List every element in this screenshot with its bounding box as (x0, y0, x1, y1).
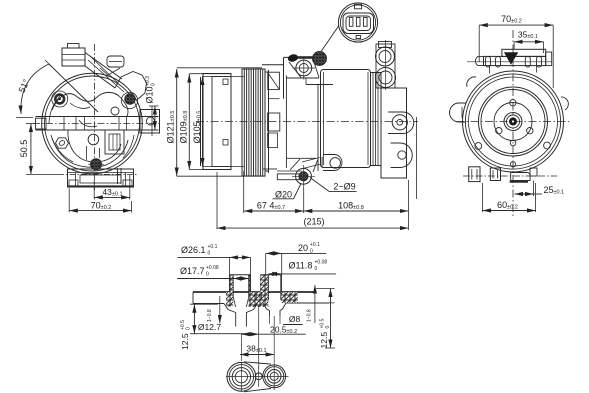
dim line (215) (216, 172, 218, 229)
right boss (260, 275, 262, 292)
svg-text:2−Ø9: 2−Ø9 (333, 182, 355, 192)
dimension 43+-0.1 (93, 180, 95, 200)
dim line O105 (202, 77, 204, 167)
top lug bolt circle (296, 60, 312, 76)
clutch plate recess (212, 77, 231, 167)
svg-text:70±0.2: 70±0.2 (501, 14, 522, 25)
horizontal centerline front view (33, 123, 161, 125)
top-left mount block (62, 48, 85, 66)
right-mid cylinder block rects (105, 130, 124, 154)
middle small bore (255, 292, 257, 300)
rear lower ear (391, 143, 413, 168)
dimension 50.5 line (30, 124, 32, 175)
dim line O109 (188, 74, 190, 170)
svg-text:Ø17.7: Ø17.7 (180, 266, 205, 276)
svg-text:70±0.2: 70±0.2 (91, 200, 112, 211)
top tab (354, 4, 361, 9)
bottom tab (356, 36, 361, 39)
dim line O121 (176, 69, 178, 176)
rear upper ear with hole (388, 112, 414, 134)
rear head (381, 88, 407, 178)
bottom foot (68, 169, 134, 187)
bottom right lug (530, 168, 537, 176)
bolt holes (510, 100, 516, 106)
bolt top-left (filled ring) (55, 95, 64, 104)
front view inner ring (45, 76, 140, 171)
connector body (343, 13, 374, 34)
rear plate (371, 73, 382, 166)
upper-right casting lobe (115, 72, 147, 100)
pulley grooves (244, 69, 262, 176)
dim 1-0.8 right (314, 285, 316, 323)
svg-text:108±0.8: 108±0.8 (338, 201, 364, 212)
tensioner bolt (solid) (287, 53, 299, 63)
svg-text:Ø10: Ø10 (145, 86, 155, 103)
flange left end (192, 292, 194, 304)
svg-text:+0.1: +0.1 (310, 242, 320, 248)
rear mid rings (479, 87, 548, 156)
middle hole (255, 373, 262, 380)
hatch left wall (230, 275, 234, 292)
balance tabs (223, 79, 228, 85)
svg-text:12.5: 12.5 (180, 333, 190, 350)
left bore O17.7 walls (232, 275, 234, 297)
svg-text:Ø20: Ø20 (275, 190, 292, 200)
bracket left cap (476, 56, 484, 65)
inner casting arc left (49, 96, 60, 124)
center through-shaft bar (36, 116, 159, 118)
pulley rear flange (265, 72, 269, 171)
51 degree angle leg (49, 64, 98, 112)
bracket right cap (546, 52, 552, 66)
left ear (450, 103, 467, 122)
svg-text:Ø105±0.5: Ø105±0.5 (192, 111, 203, 144)
dim 20.5+-0.2 (241, 333, 258, 335)
bracket lugs (486, 57, 491, 68)
dimension O10 +0.3/0 line (154, 106, 156, 130)
dim 12.5 left (190, 303, 218, 305)
svg-text:1−0.8: 1−0.8 (207, 309, 213, 322)
right mount ear with hole (140, 110, 160, 134)
svg-text:60±0.2: 60±0.2 (497, 200, 518, 211)
svg-text:0: 0 (206, 272, 209, 278)
bracket lug centerline (467, 61, 552, 63)
svg-text:0: 0 (186, 327, 192, 330)
svg-text:20: 20 (298, 243, 308, 253)
dimension 70+-0.2 (68, 188, 70, 213)
oval boss left (56, 138, 69, 148)
svg-text:Ø11.8: Ø11.8 (289, 260, 313, 270)
top mounting bracket (262, 64, 284, 66)
bottom lug arm (302, 158, 320, 163)
svg-text:+0.08: +0.08 (206, 265, 219, 271)
svg-text:0: 0 (325, 326, 331, 329)
right outer bump (561, 97, 568, 110)
small circle right (111, 107, 119, 115)
hub circles (504, 113, 522, 131)
svg-text:Ø26.1: Ø26.1 (181, 245, 206, 255)
top-left outer bump (467, 77, 476, 87)
pulley groove section (242, 69, 265, 176)
right port circles (263, 365, 286, 388)
bottom lug bolt circle (296, 168, 312, 184)
flange top surface (193, 291, 315, 293)
clutch plate disc (203, 74, 231, 170)
svg-text:Ø121±0.5: Ø121±0.5 (166, 111, 177, 144)
feet centerline (463, 175, 557, 177)
front head block (268, 70, 270, 173)
bolt circle (494, 103, 532, 141)
label O10 +0.3/0 (145, 76, 157, 104)
detail outer circles (338, 3, 377, 42)
svg-text:(215): (215) (303, 217, 324, 227)
inner casting outline (upper) (52, 92, 128, 116)
svg-text:0: 0 (151, 83, 157, 86)
small circle below center (88, 134, 99, 145)
svg-text:0: 0 (315, 266, 318, 272)
outline tangent lines (244, 362, 271, 364)
svg-text:1−0.8: 1−0.8 (307, 309, 313, 322)
tick at arc top (45, 60, 52, 67)
dim 12.5 right (330, 289, 332, 349)
tick at arc bottom (16, 117, 33, 119)
right funnel (263, 303, 270, 316)
small bumps on casing (475, 143, 482, 150)
rear top port circles (376, 44, 395, 88)
right bore extensions down (269, 316, 271, 324)
bolt top-right (hatched) (125, 94, 135, 104)
dim line 67.4 (244, 210, 304, 212)
51 degree arc (21, 64, 49, 114)
svg-text:+0.08: +0.08 (315, 259, 328, 265)
left funnel (224, 304, 236, 327)
svg-text:Ø12.7: Ø12.7 (198, 322, 221, 332)
svg-text:35±0.1: 35±0.1 (518, 30, 538, 41)
svg-text:50.5: 50.5 (19, 140, 29, 158)
svg-text:+0.1: +0.1 (208, 244, 218, 250)
svg-text:38±0.1: 38±0.1 (246, 344, 266, 355)
dim 67.4 / 108 extension lines (243, 171, 245, 213)
bottom foot A (469, 167, 480, 182)
vertical centerline front view (94, 44, 96, 190)
leader line (321, 26, 339, 52)
top bracket bar (502, 49, 546, 56)
horizontal centerline rear view (456, 121, 572, 123)
main barrel (321, 70, 371, 168)
flange bottom right (286, 302, 329, 304)
right bore O11.8 walls (267, 275, 269, 300)
body bottom steps (263, 168, 277, 170)
clutch plate front face (200, 77, 202, 166)
svg-text:Ø109±0.8: Ø109±0.8 (179, 111, 190, 144)
hatch flange body (226, 292, 233, 307)
svg-text:Ø8: Ø8 (289, 314, 301, 324)
left boss (229, 275, 231, 292)
front bottom ear capsule (323, 155, 342, 171)
front view outer clutch circle (42, 73, 143, 174)
vertical centerline rear view (512, 30, 514, 216)
left port circles (227, 362, 256, 391)
belt wedge (solid) (504, 52, 518, 65)
svg-text:12.5: 12.5 (319, 332, 329, 349)
dim 38+-0.1 (240, 334, 242, 361)
right side extension lines (316, 288, 335, 290)
svg-text:25±0.1: 25±0.1 (544, 185, 565, 196)
rear outer circles (463, 71, 564, 172)
pins (349, 18, 353, 27)
bottom-center bolt (hatched) (91, 159, 102, 170)
flange bottom left (193, 303, 224, 305)
horizontal centerline side view (196, 121, 418, 123)
hatched connector on body (313, 52, 327, 66)
bottom foot B (490, 168, 500, 181)
inner casting outline (lower) (52, 138, 128, 167)
centerlines (226, 376, 289, 378)
svg-text:43±0.1: 43±0.1 (102, 187, 122, 198)
dim 1-0.8 left (219, 296, 221, 324)
svg-text:67 4±0.7: 67 4±0.7 (257, 201, 285, 212)
diagonal bracket arms (85, 53, 122, 80)
bottom flat foot C (511, 172, 530, 180)
svg-text:0: 0 (208, 251, 211, 257)
dim line 108 (304, 210, 409, 212)
